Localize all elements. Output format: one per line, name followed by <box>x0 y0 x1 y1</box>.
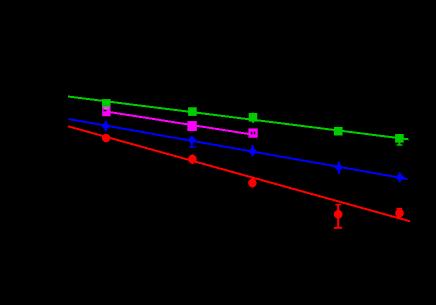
red point R5 circle <box>395 209 404 218</box>
red point R4 errorbar <box>334 204 342 229</box>
red fit line <box>68 126 410 221</box>
green point G5 square <box>395 134 404 143</box>
blue fit line <box>69 119 408 179</box>
red point R5 errorbar <box>396 208 402 218</box>
green point G5 errorbar <box>397 134 403 146</box>
blue point B1 diamond <box>101 122 110 131</box>
red point R3 errorbar <box>251 176 253 187</box>
magenta point M3 square (open with errorbar) <box>248 128 257 137</box>
green point G4 square <box>334 127 343 136</box>
red point R3 circle <box>248 179 257 188</box>
blue point B4 errorbar <box>338 161 340 173</box>
green point G1 square <box>102 99 111 106</box>
blue point B5 errorbar <box>399 172 401 182</box>
red point R2 circle <box>188 155 197 164</box>
red point R4 circle <box>334 210 343 219</box>
green point G3 errorbar <box>252 113 254 123</box>
blue point B3 errorbar <box>252 145 254 156</box>
green point G2 square <box>188 107 197 116</box>
blue point B5 diamond <box>395 173 404 182</box>
green point G3 square <box>249 113 258 122</box>
blue point B4 diamond <box>334 163 343 172</box>
blue point B2 errorbar <box>189 140 196 148</box>
green fit line <box>68 97 409 140</box>
blue point B3 diamond <box>248 147 257 156</box>
magenta point M1 square (open, under green G1) <box>102 106 110 116</box>
blue point B1 errorbar <box>105 121 107 131</box>
magenta line <box>106 112 252 135</box>
red point R1 circle <box>102 134 111 143</box>
magenta point M2 square <box>187 121 196 131</box>
red point R2 errorbar <box>191 154 193 164</box>
blue point B2 diamond <box>187 136 196 145</box>
